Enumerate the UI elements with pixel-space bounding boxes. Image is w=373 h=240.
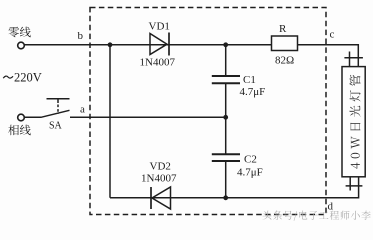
svg-text:4.7μF: 4.7μF <box>237 166 263 178</box>
switch SA <box>24 99 69 132</box>
fluorescent tube 40W日光灯管 <box>342 52 365 191</box>
svg-text:1N4007: 1N4007 <box>141 172 177 184</box>
svg-text:1N4007: 1N4007 <box>140 56 176 68</box>
live terminal 相线 <box>18 114 25 121</box>
wire: capacitor branch verticals <box>225 45 227 198</box>
diode VD2 1N4007 <box>141 161 177 209</box>
junction dot at capacitor midpoint <box>223 115 228 120</box>
capacitor C1 4.7uF <box>212 74 265 98</box>
wire: top rail from neutral terminal through b to c and tube top pin <box>24 45 358 67</box>
wire: switch output a to capacitor midpoint <box>70 116 226 118</box>
junction dot at b rail / left vertical <box>108 42 113 47</box>
resistor R 82ohm <box>272 23 298 67</box>
svg-text:C2: C2 <box>244 154 257 166</box>
svg-text:R: R <box>279 23 287 35</box>
wire: left vertical from node b rail down to bottom rail <box>109 45 111 198</box>
svg-text:SA: SA <box>49 121 63 132</box>
neutral terminal 零线 <box>18 42 25 49</box>
svg-text:b: b <box>78 30 84 42</box>
svg-text:C1: C1 <box>243 74 256 86</box>
diode VD1 1N4007 <box>140 20 176 68</box>
label ~220V <box>3 76 13 78</box>
svg-text:a: a <box>80 103 85 115</box>
svg-text:82Ω: 82Ω <box>275 55 294 67</box>
watermark 头条号/电子工程师小李 <box>263 211 371 221</box>
junction dot at bottom rail / capacitor branch <box>223 195 228 200</box>
capacitor C2 4.7uF <box>212 154 263 179</box>
svg-text:220V: 220V <box>14 71 42 85</box>
svg-text:VD2: VD2 <box>150 161 171 173</box>
wire: bottom rail from left vertical to tube bottom pin <box>110 177 359 198</box>
svg-text:c: c <box>330 29 335 41</box>
junction dot at b rail / capacitor branch <box>223 42 228 47</box>
dashed enclosure box <box>90 8 326 215</box>
svg-text:VD1: VD1 <box>149 20 170 32</box>
svg-text:4.7μF: 4.7μF <box>240 86 266 98</box>
